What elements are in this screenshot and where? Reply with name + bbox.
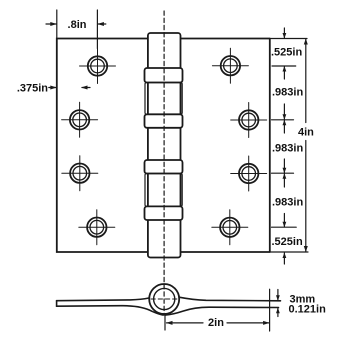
svg-text:2in: 2in [208,317,224,329]
dim .8in right arrow [97,22,105,26]
arrow down to top edge (outside, .525in) [283,28,285,38]
hole R4 [212,210,248,245]
svg-text:.525in: .525in [272,236,303,248]
row extension line 1 [272,65,296,67]
extension line left edge top [56,10,58,39]
row extension line 4 [272,226,297,228]
barrel [148,33,181,258]
svg-text:.983in: .983in [272,143,303,155]
knuckle band 4 [145,206,183,220]
2in dim: right end extension line [269,289,271,331]
arrow up from row3 (.983in #3) [283,174,285,187]
arrow up from row2 (.983in #2) [283,120,285,133]
arrow down to row3 (.983in #2) [283,159,285,173]
bottom view: left plate end cap [56,301,58,307]
svg-text:0.121in: 0.121in [289,304,327,316]
svg-text:.8in: .8in [68,19,87,31]
2in dimension line with arrows [166,321,270,325]
top edge extension line right [270,38,307,40]
knuckle band 3 [145,160,183,174]
knuckle segment D outline [145,174,182,207]
dim .8in left arrow [46,22,57,26]
knuckle band 2 [145,114,183,128]
hole R3 [231,156,267,191]
bottom view: barrel circle inner [154,288,175,309]
2in dim: centerline extension below circle [164,316,166,330]
svg-text:4in: 4in [298,127,314,139]
bottom view: horizontal dashed crosshair [151,298,178,300]
hole L3 [62,156,98,191]
svg-text:.983in: .983in [272,197,303,209]
hole R1 [212,48,248,83]
bottom view: barrel circle outer [149,284,179,314]
svg-text:.983in: .983in [272,87,303,99]
hole L4 [79,210,115,245]
3mm thickness arrows [276,290,280,317]
bottom view: left plate bottom edge [57,306,164,315]
hole L1 [80,49,116,84]
dim .375in arrow to edge [49,86,57,90]
bottom edge extension line right [270,251,308,253]
4in dimension line [304,39,308,253]
row extension line 2 [272,119,294,121]
svg-text:.375in: .375in [17,83,48,95]
row extension line 3 [272,172,294,174]
hole R2 [231,103,267,138]
knuckle band 1 [145,68,183,83]
extension line hole column top [96,10,98,49]
bottom view: left plate top edge [57,298,149,301]
bottom view: right plate bottom edge [165,307,278,315]
arrow up to bottom edge (outside, .525in) [283,253,285,264]
arrow down to row4 (.983in #3) [283,214,285,227]
dim .375in arrow to hole column [81,86,90,90]
arrow up to row1 (.983in) [283,67,285,80]
svg-text:.525in: .525in [271,47,302,59]
barrel centerline (dashed) [163,11,165,315]
right leaf [181,39,270,253]
knuckle segment B outline [145,83,182,115]
arrow down to row2 (.983in) [283,104,285,119]
left leaf [57,39,148,253]
hole L2 [62,102,98,137]
bottom view: right plate top edge [180,297,281,301]
chain dim arrows x=284.4 [283,28,287,264]
